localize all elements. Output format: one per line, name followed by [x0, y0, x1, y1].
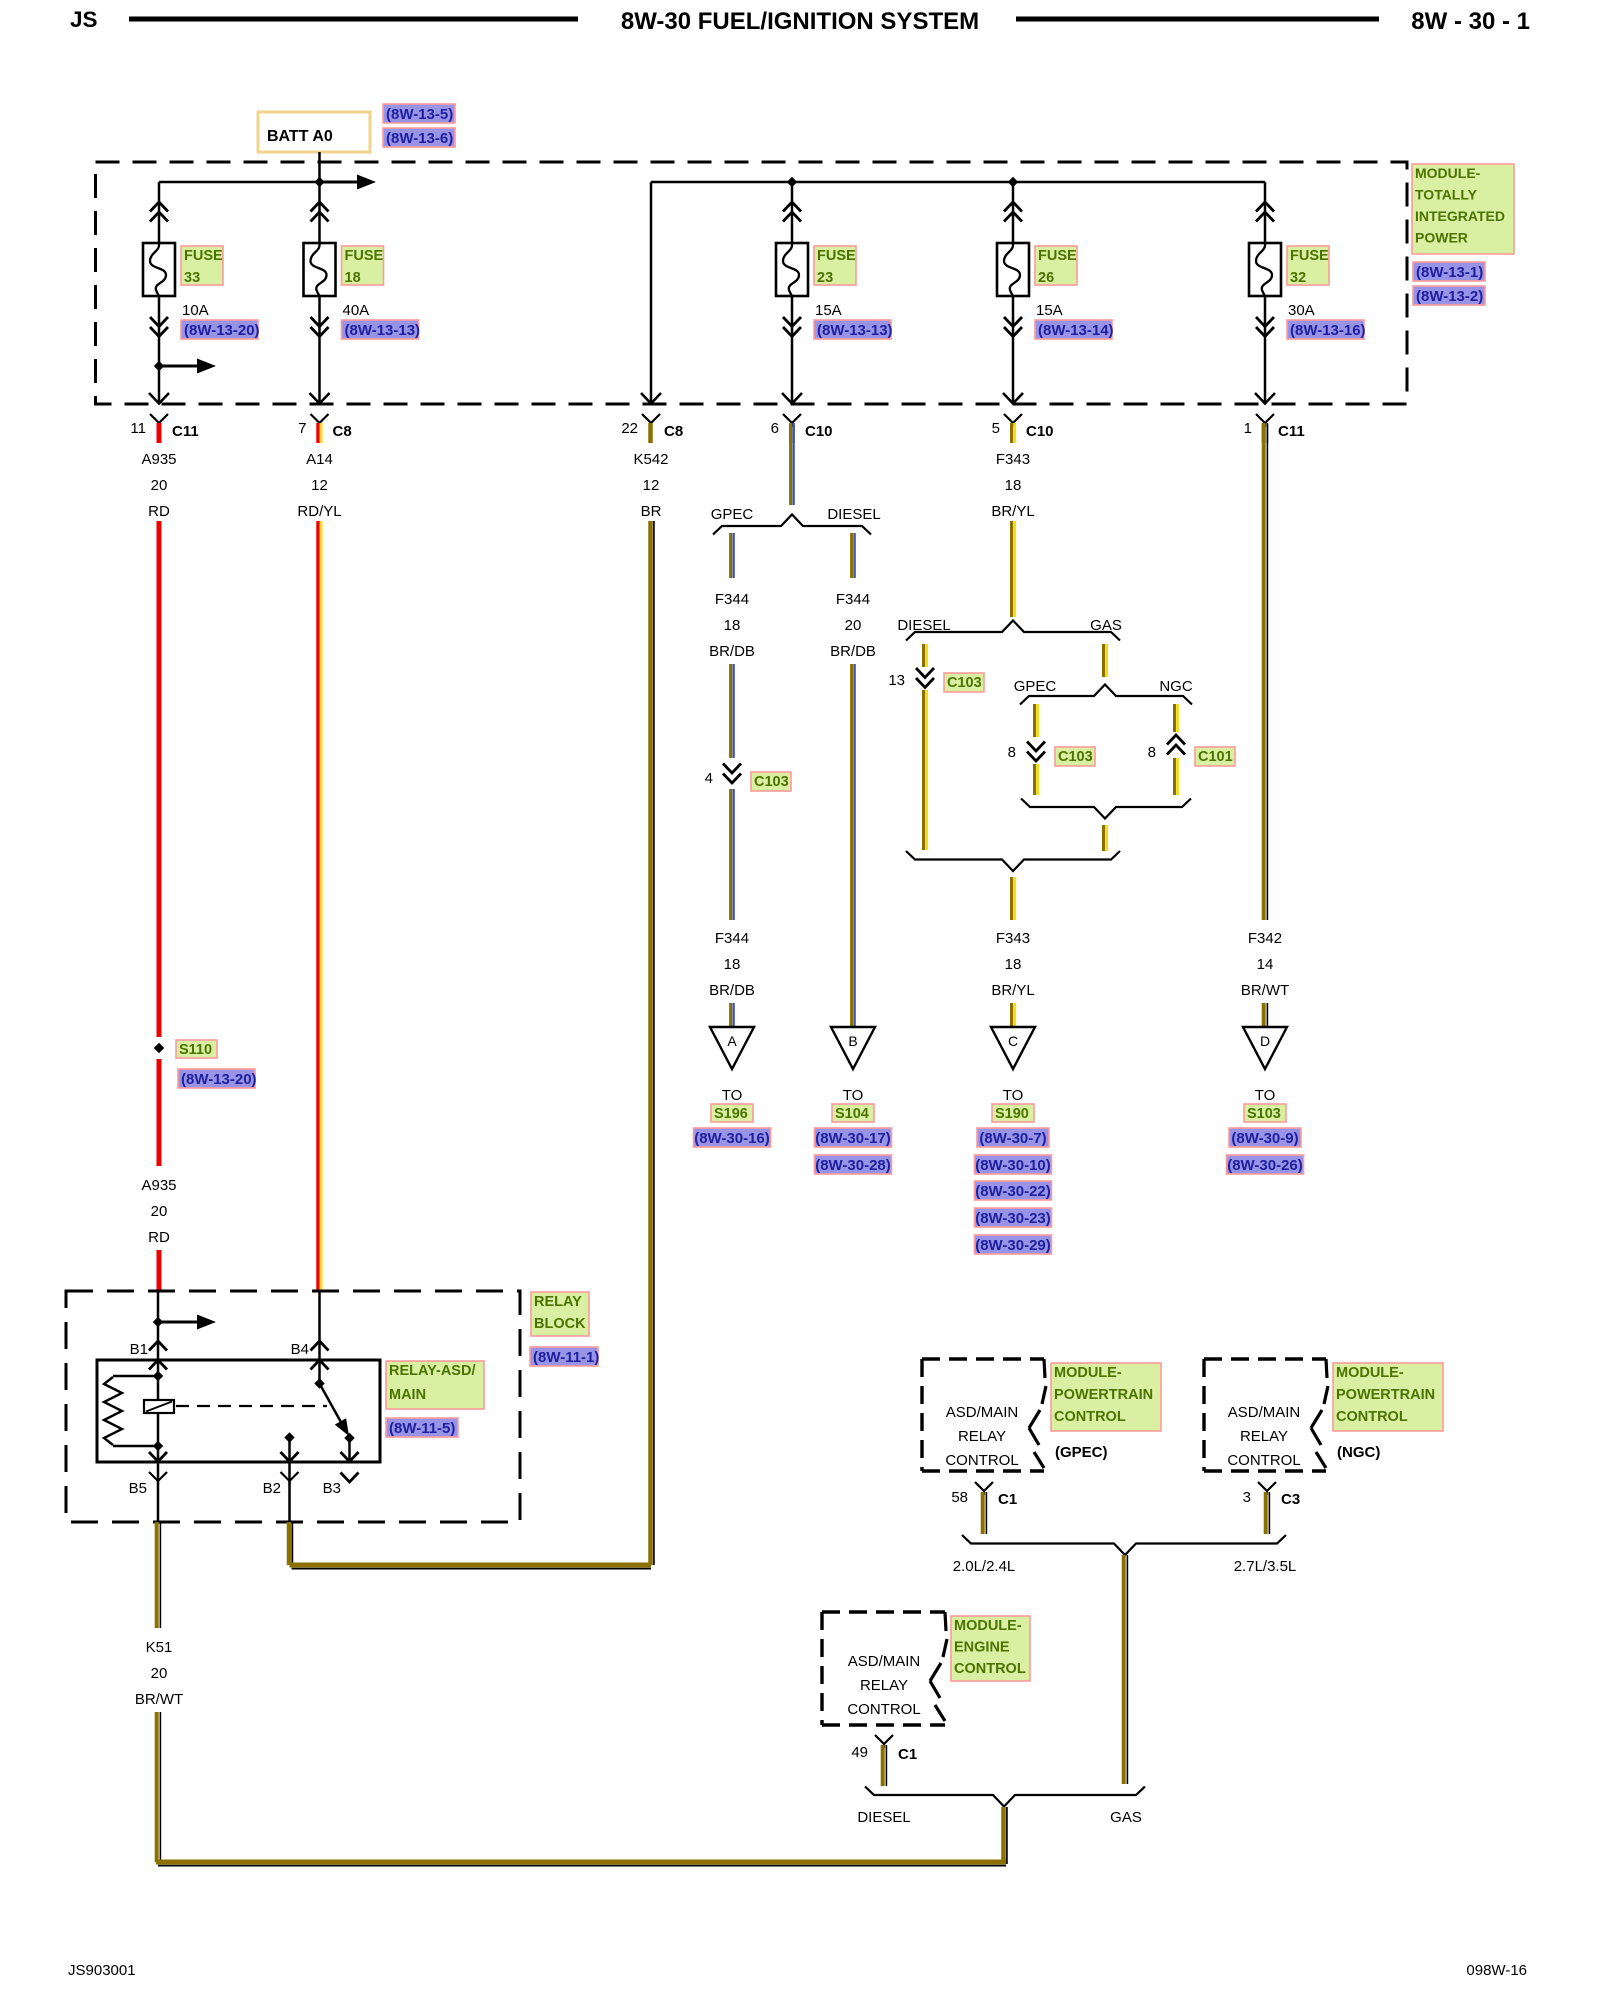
svg-text:1: 1 — [1244, 420, 1252, 437]
wire right bus — [651, 181, 1265, 184]
svg-text:(8W-13-2): (8W-13-2) — [1416, 288, 1483, 305]
svg-text:POWERTRAIN: POWERTRAIN — [1054, 1387, 1153, 1403]
connector C101 pin 8 — [1167, 735, 1185, 745]
bus junction — [314, 177, 324, 187]
svg-text:CONTROL: CONTROL — [1336, 1409, 1408, 1425]
relay block dashed box — [66, 1291, 520, 1522]
fuse 26 — [997, 243, 1029, 296]
wire into off-page triangle C — [1010, 1003, 1013, 1027]
svg-text:2.7L/3.5L: 2.7L/3.5L — [1234, 1558, 1297, 1575]
merge DIESEL + GAS — [865, 1787, 1145, 1807]
svg-text:(8W-11-5): (8W-11-5) — [389, 1420, 455, 1437]
svg-text:15A: 15A — [815, 302, 842, 319]
svg-text:BR/DB: BR/DB — [709, 982, 755, 999]
fuse output wire — [1264, 296, 1267, 404]
svg-text:POWER: POWER — [1415, 230, 1468, 246]
svg-text:B: B — [848, 1033, 857, 1049]
svg-text:FUSE: FUSE — [184, 248, 223, 264]
reference (8W-30-26) — [1227, 1155, 1304, 1174]
relay pin B4 — [311, 1341, 329, 1351]
svg-text:MODULE-: MODULE- — [1054, 1365, 1122, 1381]
svg-text:BR/YL: BR/YL — [991, 982, 1034, 999]
feed chevrons — [311, 202, 329, 212]
junction and continuation arrow below fuse 33 — [154, 361, 164, 371]
svg-text:JS903001: JS903001 — [68, 1962, 136, 1979]
svg-text:S103: S103 — [1247, 1106, 1281, 1122]
wire F344 BR/DB below pin 6 — [789, 424, 792, 505]
svg-text:C1: C1 — [898, 1746, 917, 1763]
wire DIESEL branch down to merge — [922, 690, 925, 850]
svg-text:(8W-30-7): (8W-30-7) — [979, 1130, 1046, 1147]
svg-text:8W - 30 - 1: 8W - 30 - 1 — [1411, 8, 1530, 35]
svg-text:C1: C1 — [998, 1491, 1017, 1508]
svg-text:S196: S196 — [714, 1106, 748, 1122]
feed chevrons — [1004, 202, 1022, 212]
svg-text:18: 18 — [724, 956, 741, 973]
svg-text:(8W-30-16): (8W-30-16) — [694, 1130, 770, 1147]
svg-text:6: 6 — [771, 420, 779, 437]
svg-text:CONTROL: CONTROL — [945, 1452, 1018, 1469]
svg-text:32: 32 — [1290, 270, 1306, 286]
reference (8W-13-20) — [178, 1069, 255, 1088]
svg-text:F343: F343 — [996, 930, 1030, 947]
svg-text:2.0L/2.4L: 2.0L/2.4L — [953, 1558, 1016, 1575]
bus junction at fuse 26 — [1008, 177, 1018, 187]
wire BATT A0 feed into TIPM — [318, 152, 321, 243]
module label NGC — [1333, 1363, 1443, 1431]
svg-text:ENGINE: ENGINE — [954, 1640, 1010, 1656]
wire GPEC branch stub — [729, 533, 732, 578]
svg-text:(8W-13-14): (8W-13-14) — [1038, 322, 1114, 339]
svg-text:4: 4 — [705, 770, 713, 787]
fuse 18 — [304, 243, 336, 296]
fuse 33 reference (8W-13-20) — [181, 320, 258, 339]
svg-text:TO: TO — [1255, 1087, 1276, 1104]
fuse 23 reference (8W-13-13) — [814, 320, 891, 339]
svg-text:RELAY: RELAY — [860, 1677, 908, 1694]
reference (8W-30-23) — [975, 1208, 1052, 1227]
svg-text:26: 26 — [1038, 270, 1054, 286]
svg-text:(8W-30-9): (8W-30-9) — [1231, 1130, 1298, 1147]
svg-text:BATT A0: BATT A0 — [267, 128, 333, 145]
svg-text:FUSE: FUSE — [345, 248, 384, 264]
svg-text:(GPEC): (GPEC) — [1055, 1444, 1108, 1461]
svg-text:ASD/MAIN: ASD/MAIN — [848, 1653, 921, 1670]
reference (8W-11-1) — [530, 1347, 598, 1366]
svg-text:C103: C103 — [947, 675, 982, 691]
svg-text:7: 7 — [298, 420, 306, 437]
svg-text:(8W-30-28): (8W-30-28) — [815, 1157, 891, 1174]
svg-text:(8W-30-23): (8W-30-23) — [975, 1210, 1051, 1227]
svg-text:20: 20 — [151, 1665, 168, 1682]
svg-text:40A: 40A — [343, 302, 370, 319]
split DIESEL / GAS — [906, 621, 1120, 641]
svg-text:GPEC: GPEC — [711, 506, 754, 523]
svg-text:F344: F344 — [836, 591, 870, 608]
wire F344 to C103 — [729, 664, 732, 758]
svg-text:BR: BR — [641, 503, 662, 520]
svg-text:CONTROL: CONTROL — [1054, 1409, 1126, 1425]
feed chevrons — [783, 202, 801, 212]
svg-text:A: A — [727, 1033, 737, 1049]
reference (8W-30-28) — [815, 1155, 892, 1174]
off-page connector A — [710, 1027, 754, 1069]
svg-text:C103: C103 — [754, 774, 789, 790]
feed chevrons — [1256, 202, 1274, 212]
svg-text:TO: TO — [1003, 1087, 1024, 1104]
svg-text:49: 49 — [851, 1744, 868, 1761]
fuse 32 — [1249, 243, 1281, 296]
svg-text:ASD/MAIN: ASD/MAIN — [946, 1404, 1019, 1421]
wire B1 inside relay block — [157, 1291, 160, 1360]
svg-text:K51: K51 — [146, 1639, 173, 1656]
merge GPEC + NGC — [1021, 799, 1191, 819]
svg-text:18: 18 — [345, 270, 361, 286]
reference (8W-30-9) — [1229, 1128, 1301, 1147]
svg-text:BR/WT: BR/WT — [135, 1691, 183, 1708]
merge DIESEL + GAS — [906, 851, 1120, 871]
svg-text:RELAY-ASD/: RELAY-ASD/ — [389, 1363, 475, 1379]
svg-text:BR/YL: BR/YL — [991, 503, 1034, 520]
off-page connector B — [831, 1027, 875, 1069]
svg-text:(8W-13-20): (8W-13-20) — [181, 1071, 257, 1088]
svg-text:K542: K542 — [633, 451, 668, 468]
reference (8W-30-17) — [815, 1128, 892, 1147]
svg-text:TO: TO — [843, 1087, 864, 1104]
reference (8W-11-5) — [386, 1418, 458, 1437]
wire merged output down to K51 run — [1001, 1807, 1006, 1864]
fuse 32 reference (8W-13-16) — [1287, 320, 1364, 339]
svg-text:C11: C11 — [1278, 423, 1305, 440]
svg-text:(8W-13-5): (8W-13-5) — [386, 106, 453, 123]
wire K51 BR/WT lower run — [155, 1712, 159, 1862]
reference (8W-30-29) — [975, 1235, 1052, 1254]
relay RELAY-ASD/MAIN box — [97, 1360, 380, 1462]
wire left bus with continuation arrow — [159, 181, 320, 184]
svg-text:098W-16: 098W-16 — [1466, 1962, 1527, 1979]
svg-text:(8W-11-1): (8W-11-1) — [533, 1349, 599, 1366]
connector C103 pin 13 — [916, 668, 934, 678]
wire B4 inside relay block — [318, 1291, 321, 1360]
svg-text:(8W-13-1): (8W-13-1) — [1416, 264, 1483, 281]
wire K542 BR long run — [648, 521, 653, 1565]
svg-text:58: 58 — [951, 1489, 968, 1506]
svg-text:F342: F342 — [1248, 930, 1282, 947]
svg-text:22: 22 — [621, 420, 638, 437]
svg-text:A14: A14 — [306, 451, 333, 468]
module TIPM label — [1412, 164, 1514, 254]
svg-text:C: C — [1008, 1033, 1018, 1049]
wire GAS merged stub — [1102, 825, 1105, 851]
wire DIESEL branch stub — [922, 644, 925, 667]
module label GPEC — [1051, 1363, 1161, 1431]
relay coil branch — [149, 1360, 167, 1370]
wire B2 below relay — [288, 1462, 291, 1522]
svg-text:B3: B3 — [323, 1480, 341, 1497]
wire F342 BR/WT long run — [1262, 424, 1266, 920]
svg-text:A935: A935 — [141, 451, 176, 468]
svg-text:12: 12 — [643, 477, 660, 494]
off-page connector C — [991, 1027, 1035, 1069]
wire K542 feed inside TIPM — [650, 182, 653, 404]
relay coil winding — [104, 1377, 122, 1445]
svg-text:DIESEL: DIESEL — [897, 617, 950, 634]
svg-text:B1: B1 — [130, 1341, 148, 1358]
svg-text:33: 33 — [184, 270, 200, 286]
off-page connector D — [1243, 1027, 1287, 1069]
svg-text:(8W-30-26): (8W-30-26) — [1227, 1157, 1303, 1174]
relay block label — [531, 1292, 589, 1336]
svg-text:POWERTRAIN: POWERTRAIN — [1336, 1387, 1435, 1403]
relay pin B3 — [341, 1473, 359, 1483]
svg-text:B4: B4 — [291, 1341, 309, 1358]
svg-text:(8W-13-20): (8W-13-20) — [184, 322, 260, 339]
relay pin B2 — [281, 1472, 299, 1481]
svg-text:INTEGRATED: INTEGRATED — [1415, 208, 1505, 224]
relay coil symbol — [144, 1400, 174, 1413]
svg-text:DIESEL: DIESEL — [857, 1809, 910, 1826]
wire to fuse 26 — [1012, 182, 1015, 243]
svg-text:RELAY: RELAY — [1240, 1428, 1288, 1445]
svg-text:13: 13 — [888, 672, 905, 689]
svg-text:CONTROL: CONTROL — [1227, 1452, 1300, 1469]
wire F343 merged output — [1010, 877, 1013, 920]
junction with continuation arrow — [153, 1317, 163, 1327]
bus junction at fuse 23 — [787, 177, 797, 187]
relay switch common B4 — [311, 1360, 329, 1370]
splice S110 — [154, 1043, 164, 1053]
module POWERTRAIN NGC box — [1204, 1357, 1326, 1360]
wire to fuse 33 — [158, 182, 161, 243]
svg-text:A935: A935 — [141, 1177, 176, 1194]
svg-text:RELAY: RELAY — [958, 1428, 1006, 1445]
svg-text:B2: B2 — [263, 1480, 281, 1497]
svg-text:C8: C8 — [664, 423, 683, 440]
svg-text:F344: F344 — [715, 930, 749, 947]
wire K51 BR/WT from B5 — [155, 1522, 159, 1628]
svg-text:BR/DB: BR/DB — [709, 643, 755, 660]
svg-text:TO: TO — [722, 1087, 743, 1104]
svg-text:S104: S104 — [835, 1106, 869, 1122]
svg-text:JS: JS — [70, 7, 98, 32]
reference (8W-13-1) — [1413, 262, 1485, 281]
split GPEC / NGC — [1020, 685, 1192, 705]
svg-text:(NGC): (NGC) — [1337, 1444, 1380, 1461]
fuse output wire — [791, 296, 794, 404]
svg-text:10A: 10A — [182, 302, 209, 319]
wire A935 RD upper run — [157, 521, 162, 1037]
svg-text:D: D — [1260, 1033, 1270, 1049]
wire DIESEL branch stub — [850, 533, 853, 578]
svg-text:20: 20 — [151, 1203, 168, 1220]
wire into off-page triangle A — [729, 1003, 732, 1027]
battery feed BATT A0 — [258, 112, 370, 152]
svg-text:(8W-30-22): (8W-30-22) — [975, 1183, 1051, 1200]
wire A935 RD lower run — [157, 1059, 162, 1166]
svg-text:(8W-13-13): (8W-13-13) — [817, 322, 893, 339]
wire from GPEC pin 58 — [981, 1492, 985, 1534]
module TIPM dashed box — [96, 162, 1408, 404]
connector C103 pin 8 — [1027, 742, 1045, 752]
svg-text:MODULE-: MODULE- — [1336, 1365, 1404, 1381]
svg-text:(8W-30-29): (8W-30-29) — [975, 1237, 1051, 1254]
svg-text:(8W-30-10): (8W-30-10) — [975, 1157, 1051, 1174]
reference (8W-30-7) — [977, 1128, 1049, 1147]
svg-text:20: 20 — [151, 477, 168, 494]
svg-text:C10: C10 — [1026, 423, 1054, 440]
svg-text:MODULE-: MODULE- — [954, 1618, 1022, 1634]
svg-text:5: 5 — [992, 420, 1000, 437]
svg-text:S110: S110 — [179, 1042, 212, 1058]
wire from engine control pin 49 — [881, 1745, 885, 1786]
svg-text:F343: F343 — [996, 451, 1030, 468]
svg-text:8: 8 — [1148, 744, 1156, 761]
wire GPEC branch — [1033, 704, 1036, 737]
wire F344 down to triangle B — [850, 664, 853, 1027]
fuse output wire — [318, 296, 321, 404]
module engine control box — [822, 1610, 945, 1613]
wire A14 RD/YL run — [316, 521, 319, 1291]
svg-text:GAS: GAS — [1110, 1809, 1142, 1826]
svg-text:CONTROL: CONTROL — [954, 1661, 1026, 1677]
svg-text:DIESEL: DIESEL — [827, 506, 880, 523]
relay label RELAY-ASD/MAIN — [386, 1361, 484, 1409]
relay pin B1 — [149, 1341, 167, 1351]
relay contact B3 — [344, 1433, 354, 1443]
wire B5 below relay — [149, 1452, 167, 1462]
fuse output wire — [1012, 296, 1015, 404]
svg-text:F344: F344 — [715, 591, 749, 608]
relay switch arm — [320, 1384, 343, 1425]
svg-text:15A: 15A — [1036, 302, 1063, 319]
svg-text:C101: C101 — [1198, 749, 1233, 765]
merge 2.0L/2.4L + 2.7L/3.5L — [962, 1535, 1286, 1555]
svg-text:MAIN: MAIN — [389, 1387, 426, 1403]
wire into off-page triangle D — [1262, 1003, 1266, 1027]
wire A935 RD into relay block — [157, 1250, 162, 1291]
reference (8W-13-5) — [383, 104, 455, 123]
wire to fuse 23 — [791, 182, 794, 243]
wire to fuse 32 — [1264, 182, 1267, 243]
svg-text:FUSE: FUSE — [1038, 248, 1077, 264]
module POWERTRAIN GPEC box — [922, 1357, 1044, 1360]
svg-text:RD/YL: RD/YL — [297, 503, 341, 520]
relay actuation dashed link — [176, 1405, 327, 1407]
reference (8W-30-16) — [694, 1128, 771, 1147]
feed chevrons — [150, 202, 168, 212]
module label ENGINE CONTROL — [951, 1616, 1030, 1681]
wire GAS branch stub — [1102, 644, 1105, 677]
svg-text:12: 12 — [311, 477, 328, 494]
svg-text:14: 14 — [1257, 956, 1274, 973]
svg-text:23: 23 — [817, 270, 833, 286]
fuse output wire — [158, 296, 161, 404]
svg-text:18: 18 — [724, 617, 741, 634]
fuse 23 — [776, 243, 808, 296]
svg-text:18: 18 — [1005, 477, 1022, 494]
connector C103 pin 4 — [723, 764, 741, 774]
wire from NGC pin 3 — [1264, 1492, 1268, 1534]
svg-text:RELAY: RELAY — [534, 1294, 582, 1310]
svg-text:C3: C3 — [1281, 1491, 1300, 1508]
svg-text:(8W-13-6): (8W-13-6) — [386, 130, 453, 147]
svg-text:(8W-30-17): (8W-30-17) — [815, 1130, 891, 1147]
svg-text:TOTALLY: TOTALLY — [1415, 187, 1478, 203]
svg-text:NGC: NGC — [1159, 678, 1193, 695]
svg-text:FUSE: FUSE — [1290, 248, 1329, 264]
svg-text:C8: C8 — [333, 423, 352, 440]
svg-text:BLOCK: BLOCK — [534, 1316, 586, 1332]
svg-text:FUSE: FUSE — [817, 248, 856, 264]
wire K542 from B2 to TIPM — [287, 1522, 292, 1565]
svg-text:20: 20 — [845, 617, 862, 634]
svg-text:ASD/MAIN: ASD/MAIN — [1228, 1404, 1301, 1421]
reference (8W-30-10) — [975, 1155, 1052, 1174]
svg-text:18: 18 — [1005, 956, 1022, 973]
svg-text:3: 3 — [1243, 1489, 1251, 1506]
svg-text:C11: C11 — [172, 423, 199, 440]
svg-text:BR/WT: BR/WT — [1241, 982, 1289, 999]
fuse 26 reference (8W-13-14) — [1035, 320, 1112, 339]
fuse 18 reference (8W-13-13) — [342, 320, 419, 339]
svg-text:GAS: GAS — [1090, 617, 1122, 634]
wire F343 BR/YL below pin 5 — [1010, 521, 1013, 617]
reference (8W-30-22) — [975, 1181, 1052, 1200]
wire K51 bottom horizontal run — [156, 1860, 1006, 1865]
svg-text:CONTROL: CONTROL — [847, 1701, 920, 1718]
svg-text:(8W-13-13): (8W-13-13) — [345, 322, 421, 339]
svg-text:MODULE-: MODULE- — [1415, 165, 1481, 181]
svg-text:BR/DB: BR/DB — [830, 643, 876, 660]
wire NGC branch — [1173, 704, 1176, 732]
wire merged ASD control GAS run — [1122, 1555, 1126, 1784]
svg-text:RD: RD — [148, 503, 170, 520]
svg-text:8: 8 — [1008, 744, 1016, 761]
svg-text:C10: C10 — [805, 423, 833, 440]
svg-text:GPEC: GPEC — [1014, 678, 1057, 695]
svg-text:(8W-13-16): (8W-13-16) — [1290, 322, 1366, 339]
svg-text:8W-30 FUEL/IGNITION SYSTEM: 8W-30 FUEL/IGNITION SYSTEM — [621, 8, 979, 35]
svg-text:S190: S190 — [995, 1106, 1029, 1122]
svg-text:30A: 30A — [1288, 302, 1315, 319]
relay contact B2 — [284, 1432, 294, 1442]
svg-text:C103: C103 — [1058, 749, 1093, 765]
split GPEC / DIESEL — [713, 515, 871, 535]
svg-text:RD: RD — [148, 1229, 170, 1246]
reference (8W-13-2) — [1413, 286, 1485, 305]
svg-text:B5: B5 — [129, 1480, 147, 1497]
svg-text:11: 11 — [130, 420, 146, 437]
relay pin B5 — [149, 1472, 167, 1481]
reference (8W-13-6) — [383, 128, 455, 147]
fuse 33 — [143, 243, 175, 296]
